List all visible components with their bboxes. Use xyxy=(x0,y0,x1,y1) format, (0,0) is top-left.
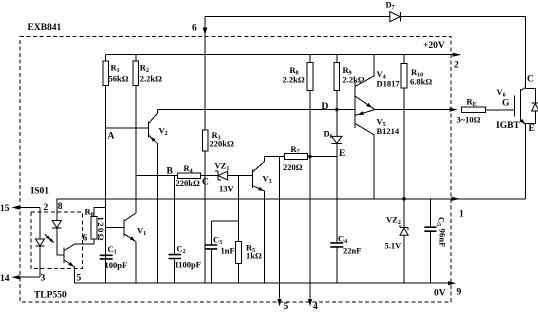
svg-text:5: 5 xyxy=(77,274,82,284)
transistor V5 emitter lead xyxy=(355,110,375,116)
svg-text:G: G xyxy=(502,99,510,109)
svg-text:0V: 0V xyxy=(434,289,446,299)
pin 14 arrow xyxy=(12,275,20,279)
wire: pin 6 / R3 / node C column xyxy=(204,17,206,284)
pin 4 exit arrow xyxy=(308,299,312,307)
svg-text:220kΩ: 220kΩ xyxy=(210,139,234,149)
capacitor C1 xyxy=(100,255,113,259)
svg-text:1nF: 1nF xyxy=(221,246,235,256)
svg-text:14: 14 xyxy=(0,274,10,284)
svg-text:C1: C1 xyxy=(108,244,117,256)
pin 9 exit arrow xyxy=(448,281,456,285)
wire: pin 5 column from E wire through rails to bottom xyxy=(279,157,281,299)
svg-text:E: E xyxy=(339,149,345,159)
wire: R10/VZ2 column from +20V rail down to 0V rail xyxy=(403,55,405,284)
svg-text:5: 5 xyxy=(284,302,289,312)
anti-parallel diode of IGBT xyxy=(526,89,536,124)
svg-text:C3: C3 xyxy=(213,235,222,247)
wire: gate drive output from V4/V5 emitters to pin 3 arrow xyxy=(375,109,457,111)
wire: R1 leads xyxy=(105,55,107,128)
transistor V4 emitter lead xyxy=(355,96,375,110)
svg-text:RE: RE xyxy=(467,97,477,109)
transistor V3 base bar xyxy=(251,169,253,188)
svg-text:VZ1: VZ1 xyxy=(215,161,230,173)
zener diode VZ1 xyxy=(218,171,228,180)
svg-text:V2: V2 xyxy=(159,126,168,138)
svg-text:13V: 13V xyxy=(219,184,235,194)
svg-text:56kΩ: 56kΩ xyxy=(109,74,129,84)
svg-text:2.2kΩ: 2.2kΩ xyxy=(140,74,162,84)
wire: R6 leads xyxy=(94,208,106,245)
svg-text:4: 4 xyxy=(313,302,318,312)
wire: R8 column from +20V rail down through rails to pin 4 xyxy=(309,55,311,299)
resistor R5 xyxy=(236,242,242,264)
transistor V3 collector lead up to E wire xyxy=(252,157,264,173)
svg-text:15: 15 xyxy=(0,204,10,214)
svg-text:100pF: 100pF xyxy=(105,260,128,270)
svg-text:8: 8 xyxy=(58,202,63,212)
svg-text:2: 2 xyxy=(454,61,459,71)
svg-text:C4: C4 xyxy=(338,234,347,246)
opto phototransistor emitter lead to 0V rail xyxy=(64,260,74,283)
svg-text:120Ω: 120Ω xyxy=(96,217,106,241)
svg-text:V6: V6 xyxy=(497,87,506,99)
zener diode VZ2 xyxy=(400,228,408,235)
svg-text:6: 6 xyxy=(83,234,88,244)
transistor V2 collector lead xyxy=(148,110,157,124)
svg-text:C: C xyxy=(527,75,534,85)
transistor V1 emitter arrow (NPN) xyxy=(130,236,136,241)
wire: 0V rail xyxy=(74,282,448,284)
wire: pin 15 and pin 14 input stubs xyxy=(19,208,41,278)
svg-text:D6: D6 xyxy=(324,129,333,141)
wire: zener output node column from B-C wire down to R5 and 0V rail xyxy=(238,176,240,284)
svg-text:R7: R7 xyxy=(291,144,300,156)
transistor V1 base bar xyxy=(123,220,125,237)
svg-text:22nF: 22nF xyxy=(343,246,361,256)
capacitor C5 xyxy=(429,199,431,283)
svg-text:D1817: D1817 xyxy=(377,79,401,89)
resistor R1 xyxy=(103,61,109,86)
svg-text:6.8kΩ: 6.8kΩ xyxy=(410,77,432,87)
wire: pin 1 rail from photodiode column to IGBT emitter xyxy=(57,198,526,200)
svg-text:C2: C2 xyxy=(177,244,186,256)
svg-text:2.2kΩ: 2.2kΩ xyxy=(283,75,305,85)
resistor R3 xyxy=(202,130,208,151)
svg-text:R2: R2 xyxy=(140,63,149,75)
wire: V2 collector to node D and V4/V5 base xyxy=(157,109,355,111)
IGBT V6 emitter lead down to pin1 rail xyxy=(521,120,526,199)
svg-text:220kΩ: 220kΩ xyxy=(176,178,200,188)
wire: node B to node C to VZ1 to V3 base xyxy=(136,175,253,177)
svg-text:R6: R6 xyxy=(85,207,94,219)
LED emission arrows xyxy=(45,234,54,243)
opto phototransistor emitter arrow xyxy=(68,262,74,267)
wire: node E column down through pin1 rail to C4 and 0V rail xyxy=(336,157,338,284)
wire: R9 leads to node D xyxy=(336,55,338,110)
photodiode of optocoupler xyxy=(52,221,61,228)
capacitor C3 xyxy=(210,221,212,283)
transistor V5 collector lead down to pin1 rail xyxy=(355,123,374,199)
svg-text:V1: V1 xyxy=(137,226,146,238)
transistor V3 emitter arrow (NPN) xyxy=(258,187,264,191)
LED of optocoupler xyxy=(35,239,44,246)
gate resistor Rg xyxy=(461,107,485,113)
resistor R8 xyxy=(307,63,313,91)
transistor V4 emitter arrow (NPN) xyxy=(366,103,372,108)
wire: V3 collector to R7 to node E xyxy=(265,156,337,158)
wire: photodiode column from pin1 rail to phototransistor base xyxy=(57,199,64,255)
wire: Rg to IGBT gate xyxy=(486,109,515,111)
svg-text:R1: R1 xyxy=(111,63,120,75)
IGBT V6 collector lead up to top wire xyxy=(521,17,526,91)
resistor R7 xyxy=(285,154,308,160)
pin 1 exit arrow xyxy=(452,197,461,201)
svg-text:C5: C5 xyxy=(435,217,447,226)
opto phototransistor base bar xyxy=(63,247,65,263)
svg-text:B: B xyxy=(167,167,174,177)
pin 6 entry arrow xyxy=(203,28,208,36)
svg-text:R4: R4 xyxy=(184,163,193,175)
resistor R2 xyxy=(133,61,139,86)
EXB841 hybrid driver dashed outline box xyxy=(20,36,451,301)
transistor V4/V5 common base bar xyxy=(354,82,356,129)
transistor V2 emitter lead and column to 0V rail xyxy=(148,135,157,283)
svg-text:VZ2: VZ2 xyxy=(386,215,401,227)
svg-text:9: 9 xyxy=(457,288,462,298)
wire: node A horizontal to V2 base xyxy=(106,127,149,129)
svg-text:E: E xyxy=(529,124,535,134)
pin 2 exit arrow xyxy=(453,53,462,57)
resistor R10 xyxy=(401,64,407,88)
wire: node A column down to R6 tee, V1 base tee, C1, 0V rail xyxy=(105,128,107,283)
wire: top collector-sense line from pin 6 riser to IGBT collector xyxy=(205,16,526,18)
junction dot R7 right terminal on R8 column xyxy=(308,155,311,158)
transistor V2 emitter arrow (PNP) xyxy=(150,137,155,142)
wire: +20V supply rail xyxy=(106,54,460,56)
svg-text:+20V: +20V xyxy=(423,41,445,51)
capacitor C4 xyxy=(330,243,343,247)
svg-text:A: A xyxy=(108,132,115,142)
resistor R9 xyxy=(334,63,340,91)
svg-text:3: 3 xyxy=(41,274,46,284)
wire: R2 column down to node B and V1 collector corner xyxy=(135,55,137,213)
svg-text:C: C xyxy=(202,178,209,188)
pin 15 arrow xyxy=(12,205,20,209)
wire: V1 base lead xyxy=(106,227,125,229)
svg-text:220Ω: 220Ω xyxy=(283,162,303,172)
svg-text:B1214: B1214 xyxy=(377,126,400,136)
resistor R6 xyxy=(91,216,97,239)
svg-text:2: 2 xyxy=(44,203,49,213)
optocoupler IS01 dashed outline box xyxy=(31,212,82,268)
pin 5 exit arrow xyxy=(277,299,281,307)
svg-text:3~10Ω: 3~10Ω xyxy=(457,115,481,125)
svg-text:IS01: IS01 xyxy=(31,187,50,197)
resistor R4 xyxy=(177,173,200,179)
IGBT V6 body bar xyxy=(520,89,522,122)
svg-text:96nF: 96nF xyxy=(437,229,447,248)
transistor V4 collector lead to +20V rail xyxy=(355,55,374,87)
opto phototransistor collector lead to R6 bottom xyxy=(64,244,94,250)
svg-text:1kΩ: 1kΩ xyxy=(246,251,262,261)
svg-text:5.1V: 5.1V xyxy=(385,241,403,251)
svg-text:6: 6 xyxy=(192,24,197,34)
transistor V1 collector lead xyxy=(124,213,136,221)
svg-text:D7: D7 xyxy=(386,0,395,11)
IGBT V6 gate bar xyxy=(514,95,516,116)
svg-text:D: D xyxy=(322,102,329,112)
svg-text:1100pF: 1100pF xyxy=(175,260,201,270)
svg-text:1: 1 xyxy=(459,210,464,220)
wire: LED column xyxy=(39,208,41,278)
transistor V5 emitter arrow (PNP) xyxy=(358,111,364,115)
transistor V1 emitter lead and column to 0V rail xyxy=(124,234,136,283)
svg-text:V3: V3 xyxy=(263,174,272,186)
IGBT V6 emitter arrow xyxy=(520,119,525,124)
svg-text:IGBT: IGBT xyxy=(496,121,520,131)
svg-text:TLP550: TLP550 xyxy=(34,291,67,301)
diode D7 xyxy=(390,12,401,22)
wire: C3 top bracket to zener node column xyxy=(211,220,238,222)
pin 3 output arrow xyxy=(450,108,458,112)
junction dot pin1 rail / VZ2 column xyxy=(402,197,406,201)
node D junction dot xyxy=(335,108,338,111)
svg-text:EXB841: EXB841 xyxy=(28,23,62,33)
capacitor C2 xyxy=(174,176,176,284)
diode D6 xyxy=(336,110,338,157)
transistor V3 emitter lead and column to 0V rail xyxy=(252,186,264,284)
transistor V2 base bar xyxy=(147,121,149,137)
